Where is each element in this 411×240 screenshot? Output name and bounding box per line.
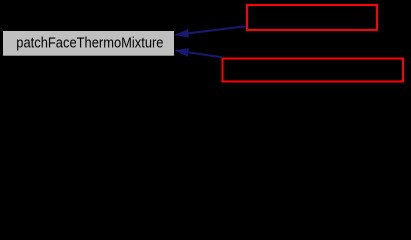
wire	[188, 52, 222, 57]
svg-text:patchFaceThermoMixture: patchFaceThermoMixture	[16, 35, 163, 52]
inheritance arrow 1 (from red box 1 to grey node)	[174, 26, 246, 37]
node patchFaceThermoMixture (current class, grey box)	[3, 31, 174, 56]
derived class box 1 (red, truncated)	[247, 5, 377, 30]
arrowhead	[174, 29, 189, 37]
arrowhead	[174, 48, 189, 57]
inheritance arrow 2 (from red box 2 to grey node)	[174, 48, 222, 57]
wire	[188, 26, 246, 33]
derived class box 2 (red, truncated)	[223, 59, 404, 82]
